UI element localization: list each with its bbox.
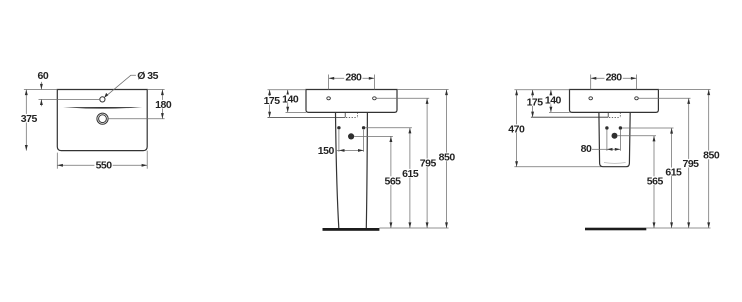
extension line drain level to right (108, 118, 164, 120)
svg-text:280: 280 (606, 72, 623, 84)
svg-text:565: 565 (384, 175, 401, 187)
bolt hole left (605, 126, 608, 129)
extension waste outlet right (618, 135, 656, 137)
svg-text:375: 375 (21, 113, 38, 125)
svg-text:615: 615 (402, 168, 419, 180)
waste outlet dot (612, 133, 618, 139)
waste outlet dot (348, 133, 354, 139)
extension line basin top to right (147, 89, 164, 91)
extension 280 left (328, 75, 330, 90)
dimension 175 (middle) (263, 90, 281, 118)
svg-text:795: 795 (420, 158, 437, 170)
dimension 280 (right) (591, 72, 637, 84)
bolt hole right (619, 126, 622, 129)
extension line basin top to left (24, 89, 57, 91)
svg-text:140: 140 (282, 94, 299, 106)
fixing hole left (589, 97, 593, 100)
svg-text:Ø 35: Ø 35 (137, 70, 158, 82)
dimension 565 (middle) (383, 136, 401, 228)
floor extension (379, 227, 448, 229)
middle basin outline (side view) (306, 90, 397, 113)
dimension 150 (318, 145, 364, 157)
extension hole level right (376, 97, 429, 99)
extension 280 right (373, 75, 375, 90)
extension bolt level right (365, 127, 412, 129)
extension hole level right (638, 97, 690, 99)
dimension 615 (middle) (401, 128, 419, 228)
washbasin top view (20, 70, 173, 172)
dimension 850 (right) (702, 90, 720, 229)
fixing hole left (327, 97, 331, 100)
fixing hole right (635, 97, 639, 100)
extension bolt left down (338, 130, 340, 152)
leader Ø 35 (104, 70, 158, 98)
floor line (323, 228, 380, 231)
extension bolt right down (363, 130, 365, 152)
dimension 795 (right) (681, 98, 699, 228)
dimension 470 (507, 90, 525, 167)
pedestal back top line (531, 116, 608, 118)
extension 280 left (590, 75, 592, 90)
drain hole (97, 113, 108, 124)
dimension 175 (right) (526, 90, 544, 118)
drain recess hidden edge (608, 112, 620, 117)
right basin outline (side view) (570, 90, 659, 113)
extension slab bottom left (286, 111, 307, 113)
extension slab top left (514, 89, 569, 91)
dimension 550 (57, 160, 147, 172)
svg-text:850: 850 (439, 152, 456, 164)
extension slab bottom left (549, 111, 570, 113)
dimension 140 (right) (544, 90, 562, 113)
dimension 180 (154, 90, 172, 119)
svg-text:175: 175 (264, 95, 281, 107)
svg-text:795: 795 (682, 158, 699, 170)
extension slab top right (397, 89, 449, 91)
semi-pedestal outline (599, 112, 630, 166)
extension line tap hole level (39, 98, 101, 100)
svg-text:175: 175 (527, 96, 544, 108)
svg-text:565: 565 (647, 175, 664, 187)
extension slab top left (268, 89, 307, 91)
svg-text:60: 60 (38, 70, 49, 82)
dimension 375 (20, 90, 38, 151)
dimension 850 (middle) (438, 90, 456, 229)
svg-text:280: 280 (345, 72, 362, 84)
extension line left edge down (56, 153, 58, 169)
drain recess hidden edge (345, 112, 357, 117)
pedestal right edge (366, 112, 367, 228)
extension slab top right (658, 89, 710, 91)
extension pedestal bottom left (514, 166, 601, 168)
svg-text:615: 615 (665, 167, 682, 179)
bolt hole left (337, 126, 340, 129)
overflow slot (63, 107, 142, 109)
dimension 565 (right) (646, 136, 664, 228)
extension line right edge down (146, 151, 148, 169)
svg-text:150: 150 (318, 145, 335, 157)
svg-text:850: 850 (703, 150, 720, 162)
svg-text:140: 140 (545, 95, 562, 107)
dimension 615 (right) (664, 128, 682, 228)
bolt hole right (362, 126, 365, 129)
extension waste outlet right (354, 135, 393, 137)
extension 280 right (636, 75, 638, 90)
svg-text:80: 80 (581, 143, 592, 155)
dimension 60 (38, 70, 49, 106)
svg-text:470: 470 (508, 123, 525, 135)
extension bolt right down (619, 130, 621, 151)
washbasin with semi-pedestal (side view) (507, 72, 720, 231)
pedestal back top line (268, 116, 346, 118)
tap hole (100, 97, 105, 102)
basin outline (57, 90, 147, 151)
pedestal inner bottom edge (604, 162, 626, 165)
dimension 795 (middle) (419, 98, 437, 228)
extension bolt level right (622, 127, 674, 129)
svg-text:550: 550 (96, 160, 113, 172)
dimension 140 (middle) (281, 90, 299, 113)
floor line (585, 228, 646, 231)
svg-text:180: 180 (155, 99, 172, 111)
pedestal left edge (336, 112, 339, 228)
dimension 80 (581, 143, 621, 155)
dimension 280 (middle) (329, 72, 375, 84)
washbasin with full pedestal (side view) (263, 72, 456, 231)
fixing hole right (373, 97, 377, 100)
floor extension (646, 227, 710, 229)
extension bolt left down (606, 130, 608, 151)
